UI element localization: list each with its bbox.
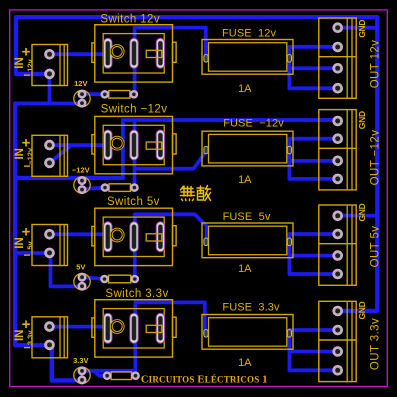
switch SW4 pin ring xyxy=(110,320,124,334)
switch SW4 right tab xyxy=(173,317,177,337)
svg-text:−: − xyxy=(23,340,30,354)
svg-text:Switch 3.3v: Switch 3.3v xyxy=(105,288,168,300)
jumper W4 body xyxy=(111,372,131,380)
testpoint J2 pin 2 xyxy=(78,186,86,194)
switch SW2 slot a xyxy=(104,130,112,160)
connector OUT1 pin 1 xyxy=(333,23,343,33)
svg-text:−12V: −12V xyxy=(72,166,90,175)
connector OUT1 body xyxy=(319,18,356,98)
wire J2 bottom pin to R2 left xyxy=(81,188,105,189)
connector IN1 pin 1 xyxy=(45,50,55,60)
wire row2 lower rail xyxy=(15,176,123,180)
svg-text:GND: GND xyxy=(357,111,367,129)
switch SW4 lever xyxy=(146,325,162,332)
fuse F3 right pad xyxy=(287,238,291,246)
connector OUT1 pin 3 xyxy=(333,64,343,74)
svg-text:GND: GND xyxy=(357,20,367,38)
testpoint J3 pin 1 xyxy=(78,273,86,281)
wire J3 top pin to R3 left xyxy=(82,277,105,279)
svg-text:1A: 1A xyxy=(238,263,252,275)
switch SW1 inner xyxy=(103,34,164,73)
connector IN4 body xyxy=(32,317,68,358)
switch SW1 body xyxy=(95,25,173,82)
connector OUT4 pin 4 xyxy=(333,366,343,376)
wire IN2 pin1 to SW2 pin xyxy=(50,143,114,147)
wire F1 to OUT1 pin3 xyxy=(289,66,338,70)
connector OUT3 pin 4 xyxy=(333,269,343,279)
wire GND: left drop, top rail, right GND bus to OUT4 pin1 xyxy=(16,17,377,311)
wire F1 right pad vertical xyxy=(287,47,291,89)
wire IN3 pin2 to J3 bottom pin xyxy=(51,253,82,286)
switch SW4 inner xyxy=(103,309,164,348)
fuse F1 inner xyxy=(209,43,287,71)
fuse F3 left pad xyxy=(204,238,208,246)
wire J1 top pin to R1 left xyxy=(82,92,105,96)
wire row2 upper rail to OUT2 pin1 xyxy=(123,118,338,122)
wire F3 to OUT3 pin4 xyxy=(289,272,337,276)
connector OUT2 pin 4 xyxy=(333,174,343,184)
wire R1 right up over SW1 to F1 left pad xyxy=(135,28,206,95)
connector IN1 pin 2 xyxy=(45,69,55,79)
svg-text:GND: GND xyxy=(357,203,367,221)
testpoint J4 ring xyxy=(74,367,90,383)
switch SW4 slot c xyxy=(156,313,164,343)
svg-text:FUSE −12v: FUSE −12v xyxy=(223,118,284,130)
wire node to J1 bottom pin xyxy=(15,102,82,106)
testpoint J3 ring xyxy=(74,273,90,289)
wire F2 right pad vertical xyxy=(287,139,291,179)
svg-text:+: + xyxy=(22,224,31,241)
svg-text:OUT −12v: OUT −12v xyxy=(370,130,382,186)
svg-text:1A: 1A xyxy=(238,357,252,369)
fuse F4 right pad xyxy=(287,330,291,338)
switch SW3 lever xyxy=(146,234,162,241)
wire OUT3 pin1 to GND bus xyxy=(338,214,377,218)
switch SW3 body xyxy=(95,208,173,265)
wire F3 to OUT3 pin3 xyxy=(289,254,337,258)
connector OUT3 pin 2 xyxy=(333,229,343,239)
switch SW2 slot b xyxy=(130,130,138,160)
connector OUT2 pin 2 xyxy=(333,134,343,144)
fuse F1 left pad xyxy=(204,55,208,63)
testpoint J1 pin 2 xyxy=(78,99,86,107)
wire F2 to OUT2 pin3 xyxy=(289,159,337,163)
jumper W1 body xyxy=(109,91,130,99)
switch SW1 left tab xyxy=(92,43,95,62)
wire row2 vertical B to R2 right xyxy=(133,120,137,188)
wire left bus to IN3 pin2 xyxy=(15,251,50,255)
switch SW1 right tab xyxy=(173,42,177,62)
testpoint J4 pin 2 xyxy=(78,376,86,384)
fuse F4 left pad xyxy=(204,330,208,338)
connector IN2 pin 1 xyxy=(45,140,55,150)
connector OUT3 body xyxy=(319,205,356,285)
wire IN3 pin1 to SW3 pin xyxy=(51,234,119,237)
wire F4 to OUT4 pin4 xyxy=(290,368,338,372)
wire jog to R4 left xyxy=(94,371,107,376)
jumper W1 pin 1 xyxy=(101,91,109,99)
switch SW1 lever xyxy=(146,50,162,57)
wire R4 right up over SW4 to F4 left pad xyxy=(135,302,205,375)
switch SW2 pin ring xyxy=(110,136,124,150)
switch SW3 pin ring xyxy=(110,228,124,242)
connector OUT2 pin 1 xyxy=(333,116,343,126)
wire F1 to OUT1 pin4 xyxy=(289,86,338,90)
switch SW4 slot a xyxy=(104,313,112,343)
testpoint J2 ring xyxy=(74,177,90,193)
testpoint J1 ring xyxy=(74,90,90,106)
testpoint J3 pin 2 xyxy=(78,282,86,290)
connector OUT4 pin 1 xyxy=(333,306,343,316)
switch SW2 body xyxy=(95,116,173,173)
connector OUT3 pin 1 xyxy=(333,211,343,221)
svg-text:GND: GND xyxy=(357,301,367,319)
fuse F3 body xyxy=(202,223,293,258)
connector OUT1 pin 2 xyxy=(333,42,343,52)
wire F4 to OUT4 pin2 xyxy=(290,328,338,332)
testpoint J1 pin 1 xyxy=(78,90,86,98)
switch SW2 lever xyxy=(146,142,162,149)
svg-text:CIRCUITOS ELÉCTRICOS 1: CIRCUITOS ELÉCTRICOS 1 xyxy=(141,375,268,386)
svg-text:5V: 5V xyxy=(76,262,85,271)
svg-text:+: + xyxy=(22,44,31,61)
switch SW3 slot a xyxy=(104,222,112,252)
connector OUT2 pin 3 xyxy=(333,156,343,166)
connector OUT3 pin 3 xyxy=(333,251,343,261)
svg-text:12V: 12V xyxy=(74,79,87,88)
fuse F1 right pad xyxy=(287,55,291,63)
jumper W2 body xyxy=(109,184,130,192)
connector IN2 body xyxy=(32,135,68,176)
svg-text:OUT 3.3v: OUT 3.3v xyxy=(370,318,382,370)
switch SW3 slot c xyxy=(156,222,164,252)
svg-text:−: − xyxy=(23,248,30,262)
connector IN3 body xyxy=(32,225,68,266)
connector IN4 pin 2 xyxy=(45,340,55,350)
switch SW3 inner xyxy=(103,217,164,256)
connector IN3 pin 1 xyxy=(45,230,55,240)
svg-text:FUSE 5v: FUSE 5v xyxy=(223,211,271,223)
switch SW4 left tab xyxy=(92,318,95,337)
svg-text:1A: 1A xyxy=(238,83,252,95)
connector OUT4 body xyxy=(319,301,356,381)
switch SW3 left tab xyxy=(92,226,95,245)
wire OUT1 pin1 to GND bus xyxy=(338,26,377,30)
jumper W3 pin 2 xyxy=(131,275,139,283)
jumper W1 pin 2 xyxy=(130,91,138,99)
switch SW1 pin ring xyxy=(110,45,124,59)
svg-text:−: − xyxy=(23,159,30,173)
jumper W4 pin 1 xyxy=(103,372,111,380)
connector OUT1 pin 4 xyxy=(333,83,343,93)
testpoint J4 pin 1 xyxy=(78,367,86,375)
svg-text:FUSE 12v: FUSE 12v xyxy=(222,28,276,40)
fuse F2 right pad xyxy=(287,146,291,154)
wire IN4 pin1 to SW4 pin xyxy=(51,325,118,329)
wire IN1 pin2 down to node xyxy=(15,74,49,104)
switch SW1 slot b xyxy=(130,38,138,68)
fuse F4 inner xyxy=(209,318,287,347)
wire IN1 pin1 to SW1 pin xyxy=(50,52,114,56)
svg-text:+: + xyxy=(22,316,31,333)
jumper W3 pin 1 xyxy=(101,275,109,283)
switch SW1 slot a xyxy=(104,38,112,68)
jumper W2 pin 2 xyxy=(131,184,139,192)
switch SW4 body xyxy=(95,300,173,357)
text 無敵 (kanji) xyxy=(181,186,211,201)
wire left bus down to IN4 pin2 and J4 bottom xyxy=(15,104,82,381)
switch SW2 slot c xyxy=(156,130,164,160)
switch SW2 inner xyxy=(103,125,164,164)
wire GND to IN1 pin2 xyxy=(16,72,50,76)
switch SW3 right tab xyxy=(173,226,177,246)
fuse F3 inner xyxy=(209,226,287,255)
wire F3 right pad vertical xyxy=(287,234,291,274)
connector OUT4 pin 3 xyxy=(333,347,343,357)
fuse F4 body xyxy=(202,315,293,350)
connector IN4 pin 1 xyxy=(45,322,55,332)
svg-text:3.3V: 3.3V xyxy=(73,356,88,365)
connector IN1 body xyxy=(32,45,68,86)
switch SW1 slot c xyxy=(156,38,164,68)
svg-text:FUSE 3.3v: FUSE 3.3v xyxy=(222,301,280,313)
switch SW2 right tab xyxy=(173,134,177,154)
switch SW2 left tab xyxy=(92,135,95,154)
wire F3 to OUT3 pin2 xyxy=(289,232,337,236)
jumper W2 pin 1 xyxy=(101,184,109,192)
fuse F2 inner xyxy=(209,134,287,163)
wire F2 to OUT2 pin2 xyxy=(289,137,337,141)
switch SW4 slot b xyxy=(130,313,138,343)
testpoint J2 pin 1 xyxy=(78,177,86,185)
svg-text:OUT 5v: OUT 5v xyxy=(370,226,382,268)
svg-text:Switch 5v: Switch 5v xyxy=(107,196,160,208)
switch SW3 slot b xyxy=(130,222,138,252)
wire F1 to OUT1 pin2 xyxy=(289,45,338,49)
connector OUT4 pin 2 xyxy=(333,325,343,335)
connector OUT2 body xyxy=(319,110,356,190)
wire branch to F2 left pad xyxy=(135,151,207,169)
svg-text:−: − xyxy=(23,68,30,82)
fuse F2 left pad xyxy=(204,146,208,154)
wire J4 top pin to vertical B4 xyxy=(82,369,133,373)
connector IN2 pin 2 xyxy=(45,158,55,168)
fuse F1 body xyxy=(202,40,293,75)
svg-text:Switch −12v: Switch −12v xyxy=(101,104,168,116)
jumper W3 body xyxy=(109,275,131,283)
svg-text:OUT 12v: OUT 12v xyxy=(370,40,382,89)
wire F4 right pad vertical xyxy=(288,330,292,370)
svg-text:Switch 12v: Switch 12v xyxy=(100,14,160,26)
wire row2 vertical A xyxy=(121,120,125,178)
wire F4 to OUT4 pin3 xyxy=(290,350,338,354)
connector IN3 pin 2 xyxy=(45,248,55,258)
jumper W4 pin 2 xyxy=(132,372,140,380)
fuse F2 body xyxy=(202,131,293,166)
wire IN2 pin2 diagonal xyxy=(50,146,70,163)
svg-text:1A: 1A xyxy=(238,174,252,186)
wire F2 to OUT2 pin4 xyxy=(289,177,337,181)
wire R3 right up over SW3 to F3 left pad xyxy=(135,214,207,279)
